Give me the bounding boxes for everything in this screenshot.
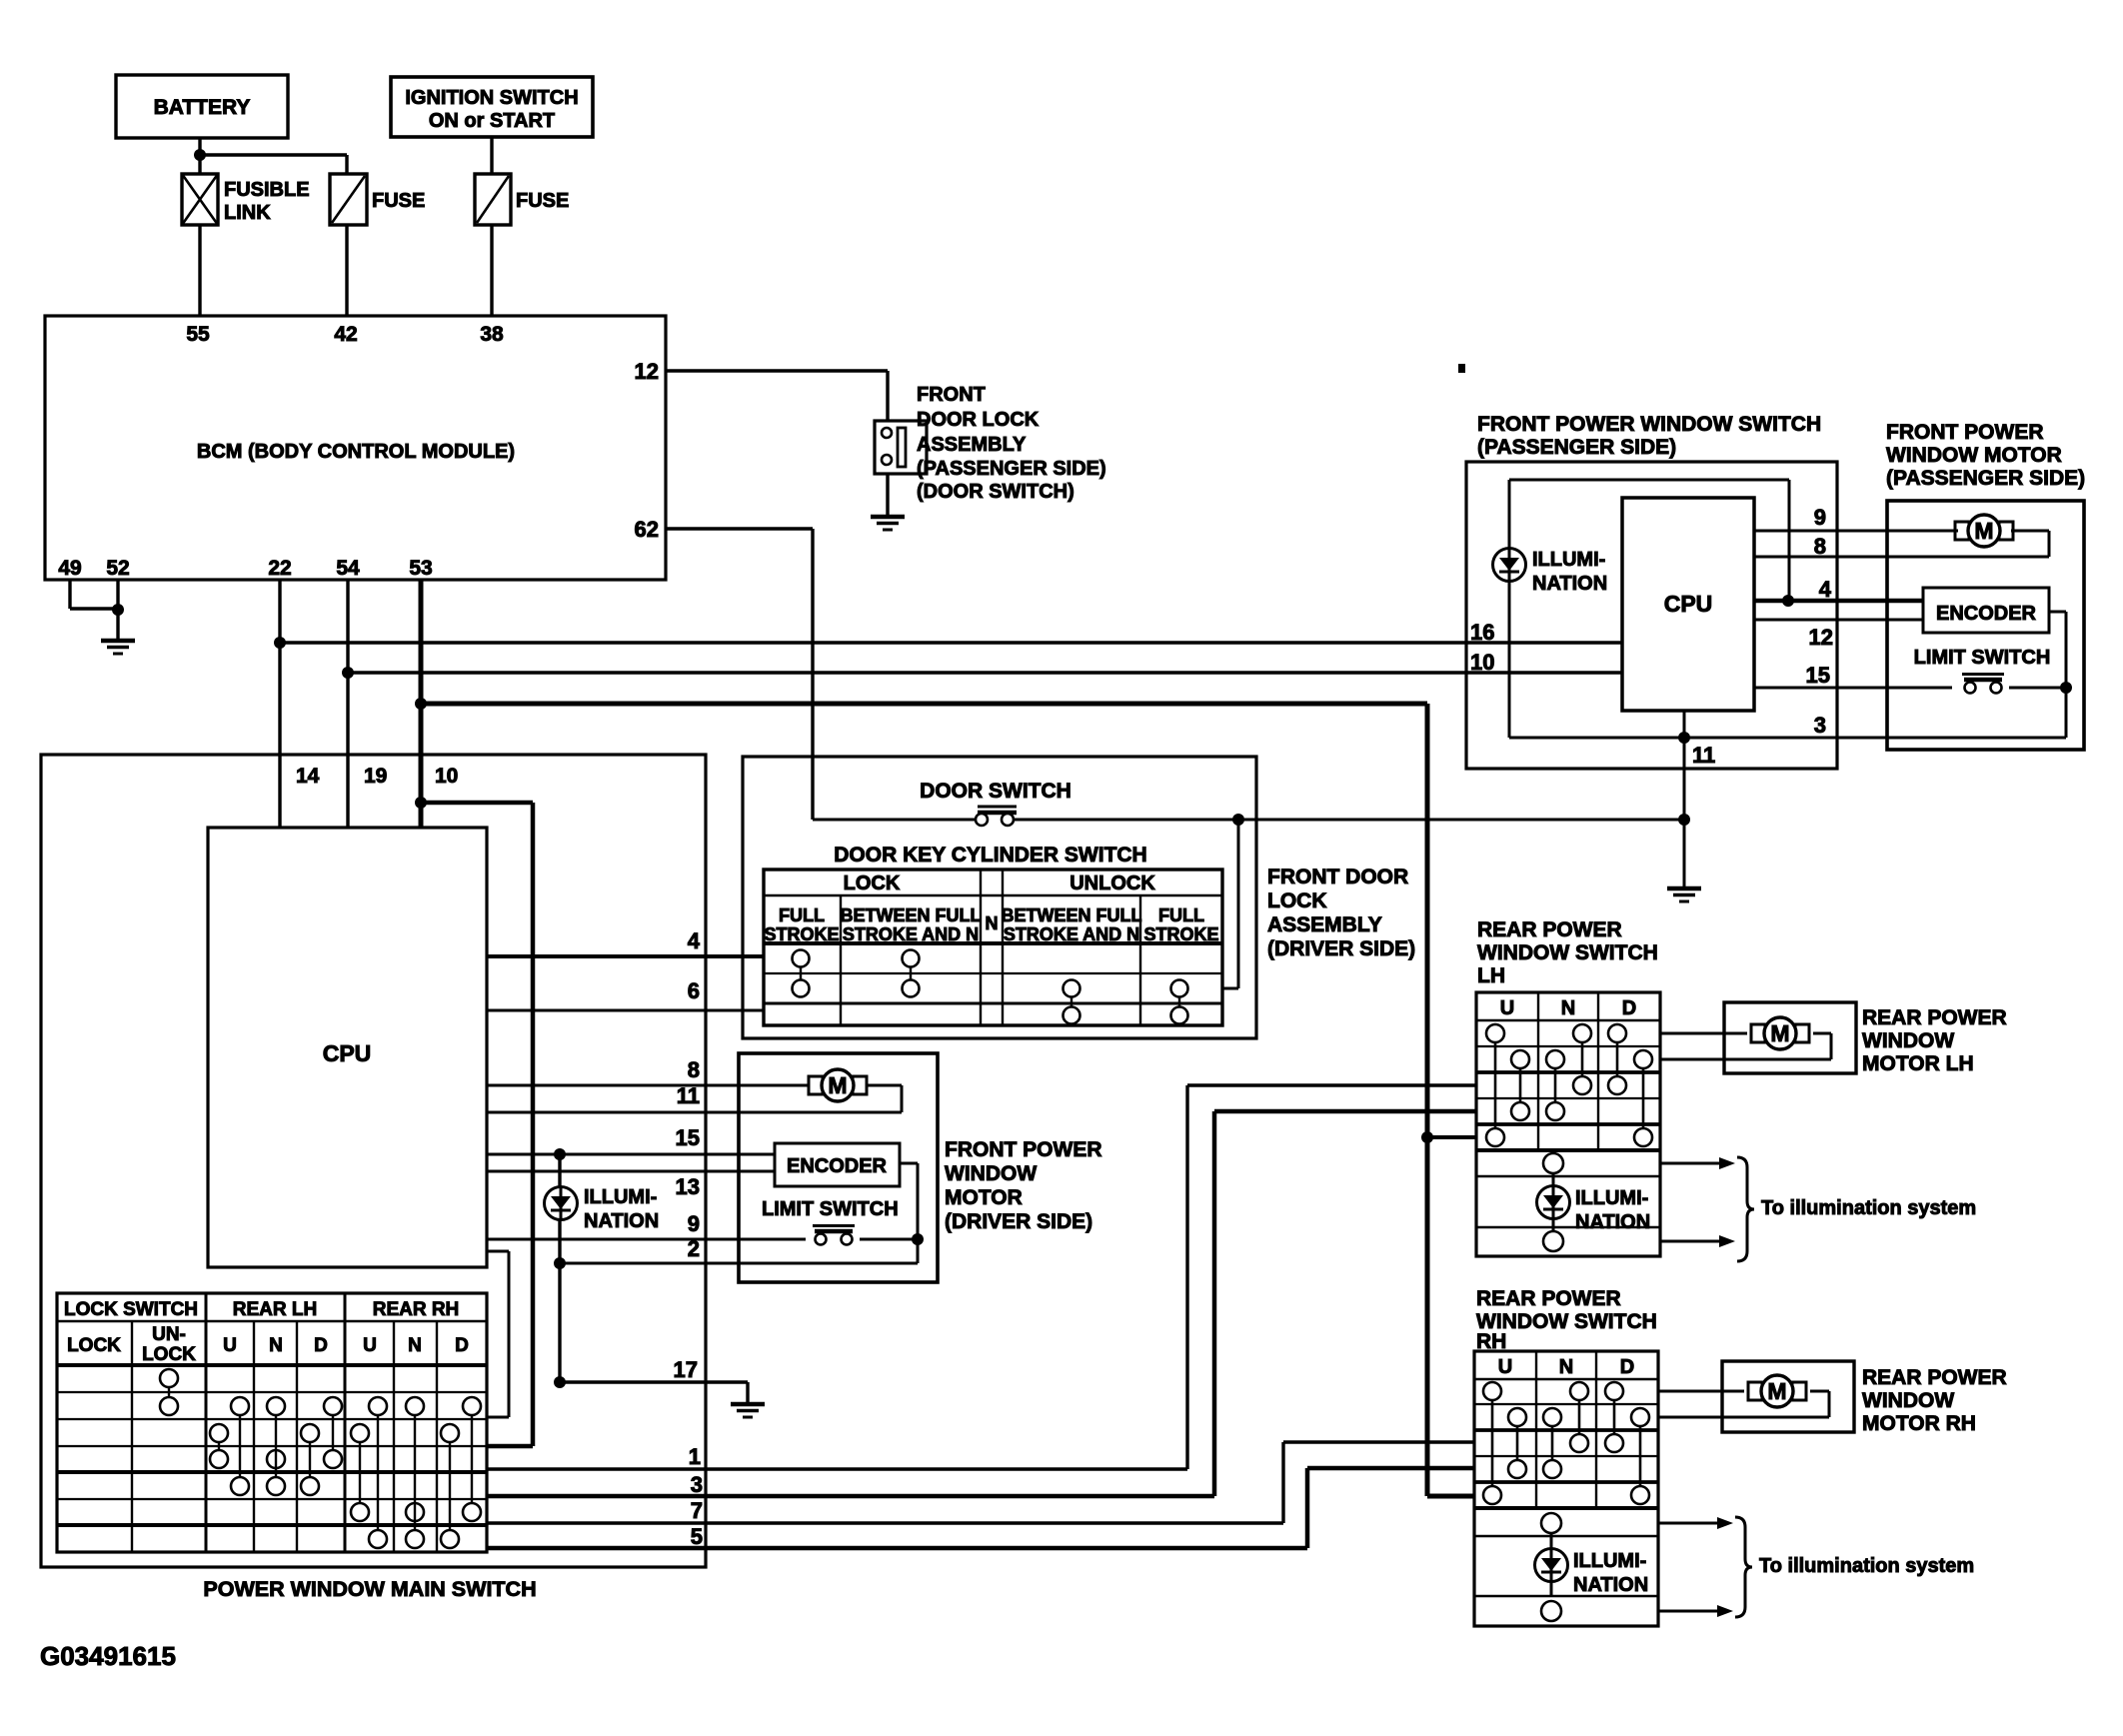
svg-text:MOTOR LH: MOTOR LH	[1862, 1052, 1974, 1075]
svg-text:1: 1	[689, 1444, 701, 1469]
svg-text:NATION: NATION	[584, 1210, 659, 1232]
svg-text:D: D	[1622, 997, 1636, 1019]
svg-text:10: 10	[435, 765, 458, 788]
svg-text:NATION: NATION	[1575, 1211, 1650, 1233]
svg-text:WINDOW: WINDOW	[1862, 1389, 1954, 1412]
svg-text:ASSEMBLY: ASSEMBLY	[1267, 913, 1382, 936]
svg-text:12: 12	[635, 359, 659, 384]
svg-text:22: 22	[268, 557, 291, 580]
svg-text:(PASSENGER SIDE): (PASSENGER SIDE)	[1886, 467, 2085, 490]
svg-text:6: 6	[688, 978, 700, 1003]
svg-text:N: N	[986, 913, 999, 933]
svg-text:M: M	[828, 1072, 847, 1098]
svg-text:WINDOW SWITCH: WINDOW SWITCH	[1477, 941, 1658, 964]
svg-text:N: N	[269, 1335, 283, 1356]
svg-text:LOCK: LOCK	[844, 872, 901, 894]
svg-text:REAR LH: REAR LH	[233, 1299, 317, 1320]
svg-text:STROKE: STROKE	[764, 924, 839, 944]
svg-text:CPU: CPU	[1664, 591, 1713, 617]
svg-text:BETWEEN FULL: BETWEEN FULL	[1002, 905, 1142, 925]
svg-text:ON or START: ON or START	[429, 110, 555, 132]
svg-text:55: 55	[186, 323, 210, 346]
svg-text:FRONT POWER: FRONT POWER	[1886, 421, 2044, 444]
svg-text:FRONT DOOR: FRONT DOOR	[1267, 866, 1408, 888]
svg-text:FRONT POWER: FRONT POWER	[945, 1138, 1102, 1161]
svg-text:9: 9	[688, 1211, 700, 1236]
svg-text:To illumination system: To illumination system	[1761, 1197, 1976, 1219]
svg-text:ILLUMI-: ILLUMI-	[1573, 1550, 1646, 1572]
svg-text:U: U	[223, 1335, 237, 1356]
svg-text:8: 8	[1814, 534, 1826, 559]
svg-text:UNLOCK: UNLOCK	[1069, 872, 1155, 894]
svg-text:IGNITION SWITCH: IGNITION SWITCH	[405, 87, 578, 109]
svg-text:LOCK: LOCK	[67, 1335, 121, 1356]
svg-text:15: 15	[1806, 663, 1830, 688]
svg-text:WINDOW: WINDOW	[1862, 1029, 1954, 1052]
svg-text:LOCK: LOCK	[142, 1344, 196, 1365]
svg-text:19: 19	[364, 765, 387, 788]
svg-text:REAR RH: REAR RH	[373, 1299, 460, 1320]
svg-text:BCM (BODY CONTROL MODULE): BCM (BODY CONTROL MODULE)	[197, 441, 515, 463]
svg-text:ASSEMBLY: ASSEMBLY	[917, 434, 1027, 456]
svg-text:U: U	[1498, 1356, 1512, 1378]
svg-text:NATION: NATION	[1532, 573, 1607, 595]
svg-text:M: M	[1974, 518, 1993, 544]
svg-text:DOOR LOCK: DOOR LOCK	[917, 409, 1040, 431]
svg-text:(DRIVER SIDE): (DRIVER SIDE)	[945, 1210, 1092, 1233]
svg-text:(PASSENGER SIDE): (PASSENGER SIDE)	[1477, 436, 1676, 459]
svg-text:U: U	[363, 1335, 377, 1356]
svg-text:38: 38	[480, 323, 504, 346]
svg-text:13: 13	[676, 1174, 700, 1199]
svg-text:FUSE: FUSE	[372, 190, 425, 212]
svg-text:POWER WINDOW MAIN SWITCH: POWER WINDOW MAIN SWITCH	[203, 1577, 536, 1601]
svg-text:4: 4	[688, 928, 701, 953]
svg-text:STROKE AND N: STROKE AND N	[1004, 924, 1139, 944]
svg-text:LOCK: LOCK	[1267, 889, 1327, 912]
svg-text:17: 17	[674, 1357, 698, 1382]
svg-text:LH: LH	[1477, 964, 1505, 987]
svg-text:FULL: FULL	[779, 905, 825, 925]
svg-text:7: 7	[691, 1498, 703, 1523]
svg-text:14: 14	[296, 765, 320, 788]
svg-text:ENCODER: ENCODER	[787, 1155, 888, 1177]
svg-text:(PASSENGER SIDE): (PASSENGER SIDE)	[917, 458, 1106, 480]
svg-text:54: 54	[336, 557, 360, 580]
svg-text:ENCODER: ENCODER	[1936, 603, 2037, 625]
svg-text:N: N	[408, 1335, 422, 1356]
svg-text:52: 52	[106, 557, 129, 580]
svg-text:FULL: FULL	[1158, 905, 1204, 925]
svg-text:G03491615: G03491615	[40, 1641, 176, 1671]
svg-text:11: 11	[677, 1083, 700, 1108]
svg-text:BETWEEN FULL: BETWEEN FULL	[841, 905, 982, 925]
svg-text:62: 62	[635, 517, 659, 542]
svg-text:9: 9	[1814, 505, 1826, 530]
svg-text:REAR POWER: REAR POWER	[1476, 1287, 1621, 1310]
svg-text:3: 3	[691, 1472, 703, 1497]
svg-text:MOTOR RH: MOTOR RH	[1862, 1412, 1976, 1435]
svg-text:15: 15	[676, 1125, 700, 1150]
svg-text:ILLUMI-: ILLUMI-	[1575, 1187, 1648, 1209]
svg-text:10: 10	[1470, 650, 1494, 675]
svg-text:2: 2	[688, 1236, 700, 1261]
svg-text:(DOOR SWITCH): (DOOR SWITCH)	[917, 481, 1074, 503]
svg-text:To illumination system: To illumination system	[1759, 1555, 1974, 1577]
svg-text:LIMIT SWITCH: LIMIT SWITCH	[762, 1198, 899, 1220]
svg-text:ILLUMI-: ILLUMI-	[584, 1186, 657, 1208]
svg-text:D: D	[455, 1335, 469, 1356]
svg-text:12: 12	[1809, 625, 1833, 650]
svg-text:8: 8	[688, 1057, 700, 1082]
svg-text:LOCK SWITCH: LOCK SWITCH	[64, 1299, 198, 1320]
svg-text:UN-: UN-	[152, 1324, 186, 1345]
svg-text:LIMIT SWITCH: LIMIT SWITCH	[1914, 647, 2051, 669]
svg-text:4: 4	[1819, 577, 1832, 602]
svg-text:MOTOR: MOTOR	[945, 1186, 1023, 1209]
svg-text:ILLUMI-: ILLUMI-	[1532, 549, 1605, 571]
svg-text:DOOR SWITCH: DOOR SWITCH	[920, 780, 1071, 803]
svg-text:REAR POWER: REAR POWER	[1477, 918, 1622, 941]
svg-text:M: M	[1770, 1020, 1789, 1046]
svg-text:16: 16	[1470, 620, 1494, 645]
svg-text:NATION: NATION	[1573, 1574, 1648, 1596]
svg-text:(DRIVER SIDE): (DRIVER SIDE)	[1267, 937, 1415, 960]
svg-text:M: M	[1767, 1378, 1786, 1404]
svg-text:STROKE: STROKE	[1143, 924, 1218, 944]
svg-text:BATTERY: BATTERY	[154, 96, 251, 119]
svg-text:DOOR KEY CYLINDER SWITCH: DOOR KEY CYLINDER SWITCH	[834, 844, 1146, 867]
svg-text:11: 11	[1692, 743, 1715, 768]
svg-text:53: 53	[409, 557, 432, 580]
svg-text:D: D	[1620, 1356, 1634, 1378]
svg-text:CPU: CPU	[323, 1040, 372, 1066]
svg-text:U: U	[1500, 997, 1514, 1019]
svg-text:N: N	[1559, 1356, 1573, 1378]
svg-text:D: D	[314, 1335, 328, 1356]
svg-text:REAR POWER: REAR POWER	[1862, 1006, 2007, 1029]
svg-text:WINDOW MOTOR: WINDOW MOTOR	[1886, 444, 2062, 467]
svg-text:REAR POWER: REAR POWER	[1862, 1366, 2007, 1389]
svg-text:FUSIBLE: FUSIBLE	[224, 179, 310, 201]
svg-text:FRONT POWER WINDOW SWITCH: FRONT POWER WINDOW SWITCH	[1477, 413, 1821, 436]
svg-text:STROKE AND N: STROKE AND N	[843, 924, 979, 944]
svg-text:FUSE: FUSE	[516, 190, 569, 212]
svg-text:3: 3	[1814, 713, 1826, 738]
svg-text:LINK: LINK	[224, 202, 271, 224]
svg-text:5: 5	[691, 1524, 703, 1549]
svg-text:42: 42	[334, 323, 357, 346]
svg-text:49: 49	[58, 557, 81, 580]
svg-text:WINDOW: WINDOW	[945, 1162, 1037, 1185]
svg-text:N: N	[1561, 997, 1575, 1019]
svg-text:FRONT: FRONT	[917, 384, 986, 406]
